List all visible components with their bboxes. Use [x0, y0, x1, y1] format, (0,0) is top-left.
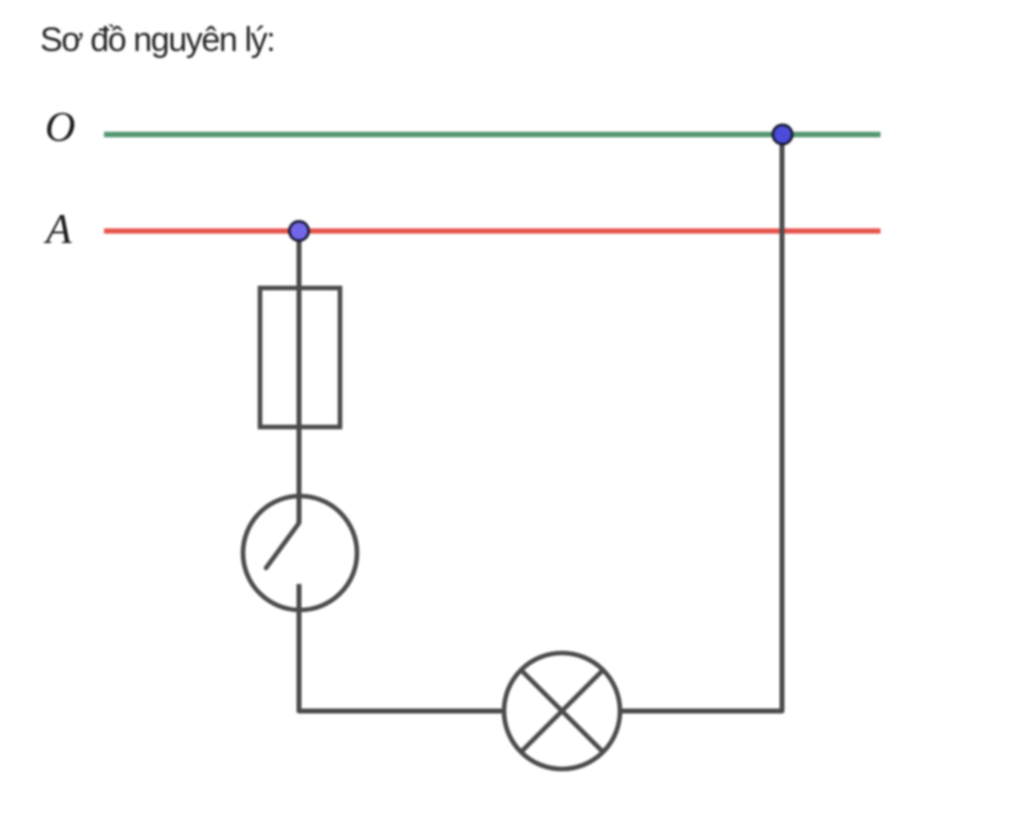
title text: [40, 21, 274, 60]
wire from lamp up to node on O line: [620, 135, 782, 712]
wire A (phase line, red): [104, 228, 881, 233]
wire O (neutral line, green): [104, 132, 881, 137]
lamp cross stroke 1: [521, 670, 603, 752]
switch S1 lever: [266, 523, 299, 568]
lamp D1 circle: [504, 653, 620, 769]
fuse F1 (rectangle): [260, 288, 340, 427]
lamp cross stroke 2: [521, 670, 603, 752]
junction node on line A: [289, 221, 308, 240]
node label O: [45, 104, 75, 152]
junction node on line O: [773, 125, 792, 144]
node label A: [46, 206, 72, 254]
switch S1 body circle: [243, 496, 357, 610]
wire from switch down to horizontal run: [299, 584, 504, 711]
wire from node A down through fuse to switch: [297, 231, 302, 523]
